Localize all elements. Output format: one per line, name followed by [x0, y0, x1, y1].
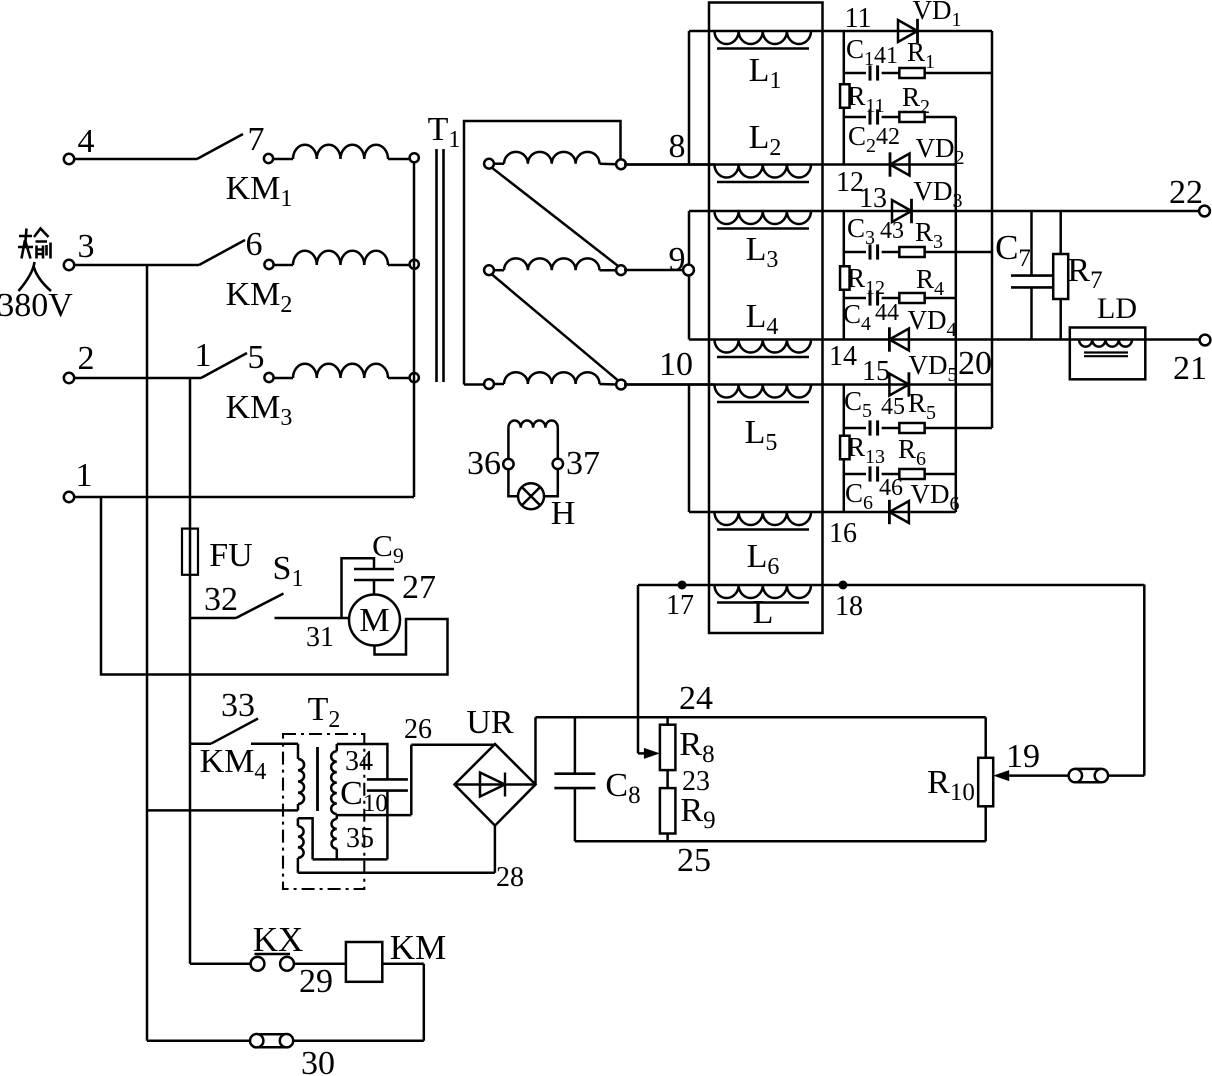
svg-text:11: 11 [845, 3, 872, 34]
wire node 17 to R8 wiper [637, 585, 640, 753]
T1 secondary delta loop wire [464, 121, 621, 385]
svg-text:8: 8 [669, 128, 686, 165]
svg-text:36: 36 [467, 445, 501, 482]
inductor L2 [715, 165, 812, 178]
svg-text:41: 41 [874, 43, 898, 69]
wire T2 primary return [147, 809, 298, 812]
svg-text:26: 26 [404, 714, 432, 745]
svg-text:43: 43 [880, 218, 904, 244]
wire motor loop [101, 497, 448, 675]
node 8 row wire [624, 163, 956, 166]
svg-text:35: 35 [346, 823, 374, 854]
svg-text:FU: FU [209, 537, 252, 574]
svg-text:5: 5 [248, 339, 265, 376]
svg-text:25: 25 [677, 842, 711, 879]
wire neutral bus [413, 164, 416, 498]
svg-text:1: 1 [195, 337, 212, 374]
svg-text:3: 3 [78, 228, 95, 265]
svg-text:22: 22 [1169, 174, 1203, 211]
svg-text:28: 28 [496, 862, 524, 893]
svg-text:16: 16 [829, 518, 857, 549]
svg-text:24: 24 [679, 680, 713, 717]
node 9 junction [683, 265, 694, 276]
T2 winding lower left [297, 818, 300, 826]
wire bracket cell 3 [688, 385, 691, 513]
svg-text:44: 44 [875, 300, 899, 326]
svg-text:42: 42 [876, 124, 900, 150]
inductor L1 [715, 31, 812, 44]
svg-text:34: 34 [345, 746, 373, 777]
wire secondary top lead [337, 744, 388, 779]
connector link 19 [1075, 768, 1101, 771]
svg-text:18: 18 [835, 591, 863, 622]
lamp H [508, 469, 518, 496]
inductor L [715, 585, 812, 598]
node 17-18 row wire [638, 584, 1144, 587]
anode bus mid [955, 117, 958, 512]
svg-text:19: 19 [1006, 738, 1040, 775]
svg-text:1: 1 [76, 457, 93, 494]
T2 primary winding [297, 744, 300, 759]
T2 core [316, 747, 319, 811]
wire delta diagonal 1 [492, 168, 618, 266]
inductor L5 [715, 385, 812, 398]
svg-text:L: L [753, 594, 774, 631]
cathode bus right [991, 31, 994, 428]
inductor L3 [715, 211, 812, 224]
snubber bus cell 3 [843, 385, 846, 437]
svg-text:H: H [551, 495, 576, 532]
svg-text:21: 21 [1173, 350, 1207, 387]
svg-text:45: 45 [881, 394, 905, 420]
T1 primary winding phase B [273, 264, 293, 267]
label input 380V [18, 229, 51, 292]
svg-text:37: 37 [566, 445, 600, 482]
svg-text:380V: 380V [0, 287, 73, 324]
inductor L6 [715, 512, 812, 525]
winding 36-37 [507, 428, 510, 459]
svg-text:14: 14 [829, 341, 857, 372]
svg-text:27: 27 [402, 569, 436, 606]
T1 primary winding phase A [273, 158, 293, 161]
T1 primary winding phase C [273, 377, 293, 380]
svg-text:20: 20 [958, 345, 992, 382]
node 10 row wire [624, 383, 992, 386]
wire delta diagonal 2 [492, 275, 618, 381]
wire bracket cell 1 [688, 31, 691, 165]
T1 secondary winding c [494, 383, 504, 386]
svg-text:33: 33 [221, 687, 255, 724]
svg-text:17: 17 [666, 590, 694, 621]
wire tap lead node 26 [337, 814, 412, 817]
wire secondary bottom tie [386, 815, 389, 859]
inductor L4 [715, 340, 812, 353]
svg-text:31: 31 [306, 622, 334, 653]
wire bracket cell 2 [688, 211, 691, 340]
svg-text:10: 10 [659, 346, 693, 383]
wire phase drop left [146, 265, 149, 1041]
wire fuse branch drop [189, 378, 192, 964]
svg-text:KM: KM [390, 928, 446, 967]
T1 secondary winding a [494, 162, 504, 165]
snubber bus cell 2 [843, 211, 846, 266]
svg-text:LD: LD [1097, 292, 1137, 325]
T1 secondary winding b [494, 269, 504, 272]
svg-text:15: 15 [862, 356, 890, 387]
svg-text:12: 12 [836, 167, 864, 198]
svg-text:M: M [359, 602, 389, 639]
connector link 30 [257, 1033, 287, 1036]
reactor core frame [709, 3, 823, 634]
svg-text:30: 30 [301, 1045, 335, 1076]
snubber bus cell 1 [843, 31, 846, 85]
svg-text:2: 2 [78, 340, 95, 377]
svg-text:4: 4 [78, 123, 95, 160]
svg-text:32: 32 [204, 581, 238, 618]
svg-text:7: 7 [248, 121, 265, 158]
svg-text:6: 6 [246, 226, 263, 263]
svg-text:29: 29 [299, 963, 333, 1000]
svg-text:UR: UR [466, 704, 514, 741]
